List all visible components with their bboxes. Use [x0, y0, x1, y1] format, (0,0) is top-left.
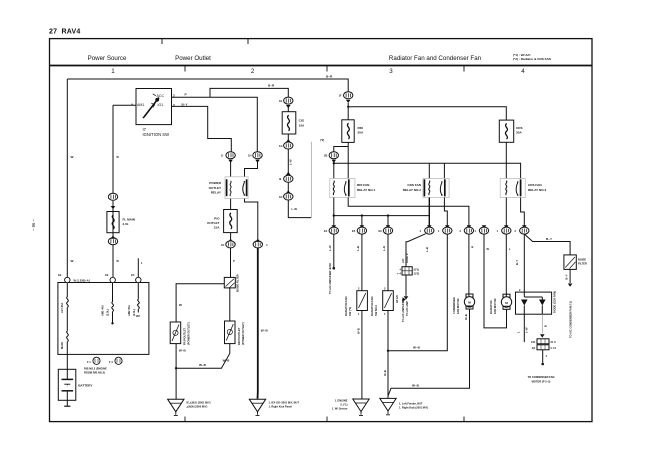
drawing frame [50, 39, 593, 422]
svg-text:C 14: C 14 [551, 346, 557, 350]
svg-text:OUTLET: OUTLET [207, 221, 219, 225]
wire connector to RDI fuse [347, 103, 349, 120]
wire relay2 switch output [444, 198, 447, 227]
svg-text:2(*1): 2(*1) [414, 268, 420, 272]
svg-text:Power Source: Power Source [88, 55, 127, 62]
svg-text:30A: 30A [516, 131, 522, 135]
wire down then right to variant line [288, 200, 311, 218]
svg-text:B–Y: B–Y [546, 237, 553, 241]
svg-text:RELAY NO.1: RELAY NO.1 [357, 188, 376, 192]
wire connector E12 down to diode [523, 234, 525, 292]
wire AM1 chain vertical [112, 105, 114, 277]
relay: power outlet relay [225, 177, 248, 199]
svg-text:W–B: W–B [412, 383, 420, 387]
condenser fan motor [464, 294, 474, 309]
svg-text:W–B: W–B [261, 329, 269, 333]
diode assembly (fan No.2) [516, 288, 552, 314]
svg-text:P: P [233, 259, 235, 263]
svg-text:1(*2): 1(*2) [414, 272, 420, 276]
svg-text:FILTER: FILTER [578, 262, 587, 266]
svg-text:C11: C11 [531, 340, 536, 344]
wire connector E9 to condenser fan motor [468, 234, 470, 296]
svg-text:MAIN: MAIN [60, 342, 64, 349]
svg-text:TO A/C AMPLIFIER: TO A/C AMPLIFIER [401, 299, 405, 322]
wire fan switch to ground [361, 311, 363, 399]
svg-text:2.0L: 2.0L [123, 222, 129, 226]
svg-text:RDI: RDI [358, 126, 363, 130]
bottom border column ticks [185, 417, 464, 422]
svg-text:1B: 1B [58, 273, 61, 277]
svg-text:FAN MOTOR: FAN MOTOR [456, 298, 460, 314]
wire temp switch to ground [387, 311, 389, 399]
connector 1C on AM1 chain [108, 238, 117, 245]
connector 2B [329, 152, 338, 159]
svg-text:TO CONDENSER FAN: TO CONDENSER FAN [528, 375, 555, 379]
wire noise filter to A/C system [569, 269, 571, 283]
svg-text:ACC: ACC [157, 94, 165, 98]
svg-text:R/B NO.2 (ENGINE: R/B NO.2 (ENGINE [84, 367, 107, 371]
svg-text:(POWER OUTLET): (POWER OUTLET) [187, 322, 191, 345]
svg-text:RELAY NO.2: RELAY NO.2 [403, 188, 422, 192]
svg-text:DIODE (CDS FAN): DIODE (CDS FAN) [553, 291, 557, 313]
wire to radiator fan switch [361, 234, 363, 291]
connector E6 [383, 227, 392, 234]
svg-text:SW NO.2: SW NO.2 [374, 304, 378, 316]
svg-text:1. ENGINE: 1. ENGINE [335, 399, 348, 403]
svg-text:2. (*1): 2. (*1) [340, 403, 347, 407]
svg-text:L–R: L–R [382, 246, 386, 251]
wire connector E12 branch to noise filter [524, 234, 570, 255]
svg-text:NOISE: NOISE [578, 258, 586, 262]
column number band ticks [185, 66, 464, 72]
wire junction block to battery [66, 354, 68, 374]
svg-text:(*2): (*2) [320, 138, 324, 142]
connector E8 [443, 227, 452, 234]
junction connector C8 [537, 339, 549, 344]
svg-text:1H: 1H [248, 154, 251, 158]
connector I9 [284, 175, 293, 182]
fuse AM1 inside junction block [112, 283, 114, 323]
svg-text:W (1.25B)–A1: W (1.25B)–A1 [74, 279, 91, 283]
ground EB (fans) [380, 398, 396, 414]
wire connector 1I to relay coil [230, 161, 232, 177]
svg-text:3: 3 [173, 103, 175, 107]
node bus B3 [387, 214, 389, 216]
wire junction to condenser fan motor reference [542, 350, 544, 363]
svg-text:POWER: POWER [209, 181, 221, 185]
wire with rotated color label [287, 149, 289, 174]
node pin 1A [65, 277, 70, 282]
svg-text:2B: 2B [324, 154, 327, 158]
node: ground junction [175, 367, 177, 369]
wire B-R main feed (top, battery hot) [67, 79, 348, 92]
fuse AM2 inside junction block [137, 283, 139, 313]
svg-text:B–Y: B–Y [564, 274, 568, 279]
svg-text:W/ A/C: W/ A/C [395, 295, 399, 303]
fusible link FL MAIN [107, 212, 119, 233]
svg-text:W–B: W–B [223, 359, 231, 363]
svg-text:M: M [505, 301, 508, 305]
fuse RDI FAN 30A [342, 120, 354, 143]
bus droppers to connectors [362, 216, 388, 227]
noise filter (power outlet) [224, 277, 235, 288]
svg-text:1K: 1K [221, 243, 224, 247]
svg-text:TO A/C AMPLIFIER∖ECM: TO A/C AMPLIFIER∖ECM [328, 263, 332, 294]
svg-text:4(1: 4(1 [532, 346, 536, 350]
junction connector C13 [537, 345, 549, 350]
wire left vertical to junction block pin 1A [66, 79, 68, 277]
fuse CIG 15A [282, 112, 296, 134]
wire relay1 switch output (thin run) [348, 198, 469, 227]
water temp switch [383, 287, 394, 317]
svg-text:FL MAIN: FL MAIN [123, 218, 136, 222]
wire connector E11 to radiator fan motor [505, 234, 507, 297]
svg-text:M: M [468, 301, 471, 305]
svg-text:W: W [71, 259, 74, 263]
wire to CIG fuse [287, 108, 289, 112]
svg-text:L–W: L–W [289, 159, 293, 165]
wire RR outlet joins ground run [176, 344, 230, 369]
battery ground bar [64, 405, 70, 407]
svg-text:TO A/C AMP: TO A/C AMP [405, 301, 409, 316]
svg-text:W–B: W–B [357, 328, 361, 334]
connector 1L [253, 241, 262, 248]
svg-text:21 C: 21 C [551, 340, 557, 344]
svg-text:1I: 1I [221, 154, 223, 158]
wire relay2 coil output (heavy) [428, 198, 430, 227]
svg-text:IGNITION SW: IGNITION SW [143, 132, 170, 137]
connector E5 [357, 227, 366, 234]
node bus B2 [361, 214, 363, 216]
svg-text:1. Right Kick Panel: 1. Right Kick Panel [269, 405, 293, 409]
relay CDS FAN RELAY No.2 [423, 179, 449, 198]
variant wire (thin) up [310, 142, 312, 218]
junction block bottom pin F1 [93, 357, 100, 364]
svg-text:OUTLET: OUTLET [209, 186, 221, 190]
power outlet RR [225, 321, 236, 344]
svg-text:2: 2 [173, 94, 175, 98]
noise filter (condenser fan) [564, 255, 576, 270]
svg-text:P/O: P/O [214, 217, 220, 221]
svg-text:B: B [472, 245, 474, 249]
wire relay switch output [245, 199, 258, 241]
svg-text:15A: 15A [299, 124, 305, 128]
svg-text:L–B: L–B [425, 247, 429, 252]
svg-text:4: 4 [521, 68, 525, 75]
svg-text:– 96 –: – 96 – [31, 219, 36, 231]
svg-text:Radiator Fan and Condenser Fan: Radiator Fan and Condenser Fan [389, 55, 482, 62]
relay RDI FAN RELAY No.1 [330, 179, 355, 198]
wire stub with node (to ECM) [333, 234, 335, 268]
svg-text:L–W: L–W [525, 327, 529, 333]
connector 1K [226, 241, 235, 248]
wire pressure switch to A/C amplifier [405, 275, 407, 296]
header titles row separator (thick) [50, 65, 593, 67]
connector E7 [425, 227, 434, 234]
wire diode right output to junction connectors [541, 314, 543, 333]
svg-text:NOISE FILTER: NOISE FILTER [236, 274, 240, 292]
svg-text:1B: 1B [105, 273, 108, 277]
svg-text:CIG: CIG [299, 119, 305, 123]
ground EA (fan switch) [353, 399, 369, 415]
svg-text:ALT 80A: ALT 80A [60, 303, 64, 313]
svg-text:+–4: +–4 [397, 272, 402, 276]
svg-text:△W30 (2000 M/Y): △W30 (2000 M/Y) [186, 405, 208, 409]
svg-text:F 1: F 1 [87, 360, 91, 364]
wire feed to CDS fuse [348, 107, 506, 120]
battery [58, 369, 76, 405]
bus droppers to relays [334, 163, 445, 178]
bus wire (fused B+) [334, 163, 521, 178]
wire FR outlet to ground [175, 344, 177, 399]
svg-text:CONDENSER: CONDENSER [452, 297, 456, 314]
connector E12 [520, 227, 529, 234]
svg-text:RADIATOR FAN: RADIATOR FAN [370, 297, 374, 316]
wire condenser motor ground run [388, 309, 470, 396]
svg-text:27 RAV4: 27 RAV4 [49, 29, 80, 36]
wire noise filter down to RR outlet [229, 288, 231, 321]
svg-text:RR P/OUTLET: RR P/OUTLET [237, 327, 241, 345]
svg-text:E5: E5 [352, 229, 356, 233]
svg-text:B–Y: B–Y [182, 103, 189, 107]
radiator fan switch (temperature) [357, 287, 368, 317]
svg-text:15A: 15A [214, 226, 220, 230]
svg-text:3: 3 [389, 68, 393, 75]
svg-text:1: 1 [111, 68, 115, 75]
fuse P/OUTLET 15A [224, 210, 238, 233]
power outlet FR [170, 322, 181, 344]
connector 1I (relay coil feed) [226, 152, 235, 159]
node ground junction [387, 350, 389, 352]
node bus B [333, 214, 335, 216]
svg-text:AM1 40A: AM1 40A [101, 305, 105, 316]
svg-text:FR P/OUTLET: FR P/OUTLET [183, 328, 187, 345]
wire ACC branch up to CIG fuse [210, 88, 288, 97]
svg-text:AM2 30A: AM2 30A [127, 305, 131, 316]
connector row arrows [332, 225, 337, 228]
wire IG1 run down-right [172, 106, 232, 151]
wire from connector E8 joining ground [388, 234, 447, 351]
svg-text:B–R: B–R [268, 84, 275, 88]
svg-text:IG1: IG1 [158, 103, 164, 107]
svg-text:SW (*1): SW (*1) [348, 307, 352, 316]
wire jog to connector 2B [334, 147, 348, 152]
node pin 1D [136, 277, 141, 282]
svg-text:(POWER OUTLET): (POWER OUTLET) [241, 322, 245, 345]
junction block R/B No.2 [58, 283, 149, 355]
svg-text:W: W [71, 155, 74, 159]
relay CDS FAN RELAY No.3 [500, 179, 525, 198]
svg-text:E4: E4 [324, 229, 328, 233]
svg-text:RELAY NO.3: RELAY NO.3 [528, 188, 547, 192]
svg-text:(*2) : Radiator & CDS FAN: (*2) : Radiator & CDS FAN [513, 57, 552, 61]
svg-text:W–B: W–B [413, 346, 421, 350]
radiator fan motor [501, 294, 511, 309]
svg-text:FAN MOTOR: FAN MOTOR [493, 298, 497, 314]
wire relay3 coil output [505, 198, 507, 227]
svg-text:W–B: W–B [383, 370, 387, 376]
svg-text:IE △W31 (2001 M/Y): IE △W31 (2001 M/Y) [187, 401, 211, 405]
wire noise filter branch left to FR outlet [176, 284, 224, 322]
svg-text:B–R: B–R [326, 75, 333, 79]
svg-text:(2.0L): (2.0L) [106, 309, 110, 316]
svg-text:1. Right Kick (2001 M/Y): 1. Right Kick (2001 M/Y) [399, 406, 428, 410]
svg-text:1. W/ Sensor: 1. W/ Sensor [332, 407, 348, 411]
connector 1H (ACC feed) [253, 152, 262, 159]
svg-text:B: B [544, 325, 548, 327]
A/C dual pressure switch [402, 267, 412, 275]
svg-text:W: W [179, 303, 182, 307]
fuse ALT inside junction block [67, 297, 69, 308]
wire relay3 switch output [521, 198, 525, 227]
svg-text:CDS FAN: CDS FAN [528, 183, 542, 187]
wire diode left output stub [523, 314, 525, 342]
svg-text:RDI FAN: RDI FAN [357, 183, 370, 187]
svg-text:4: 4 [131, 103, 133, 107]
fuse CDS FAN 30A [499, 120, 513, 142]
wire relay coil to fuse [230, 199, 232, 210]
svg-text:1. Left Fender, BUT: 1. Left Fender, BUT [399, 402, 423, 406]
svg-text:RELAY: RELAY [211, 190, 222, 194]
svg-text:E6: E6 [379, 229, 383, 233]
svg-text:1. IE4 GD–2001 M/Y, BUT: 1. IE4 GD–2001 M/Y, BUT [269, 401, 300, 405]
wire connector 1H to relay switch [245, 161, 258, 177]
svg-text:1G: 1G [279, 144, 282, 148]
wire relay1 coil to connector row [333, 198, 335, 227]
wire fuse to connector [230, 233, 232, 241]
connector 1E on AM1 chain [108, 193, 117, 200]
stub wire above pin 1D [137, 258, 139, 277]
wire motor return to connector E10 [484, 234, 507, 328]
wire fuse output to relay switch [347, 142, 349, 178]
node: junction at RDI fuse top [347, 106, 349, 108]
svg-text:F 4: F 4 [109, 360, 113, 364]
connector 1E (top of CIG chain) [284, 97, 293, 104]
node bus A [333, 162, 335, 164]
svg-text:P: P [185, 93, 187, 97]
bus wire lower (relay outputs) [334, 215, 430, 217]
junction block bottom pin F4 [115, 357, 122, 364]
svg-text:2: 2 [251, 68, 255, 75]
connector 1F (top of RDI fuse) [344, 92, 353, 99]
fuse MAIN inside junction block (second) [67, 331, 69, 342]
pressure switch feed diagonal [406, 234, 426, 267]
svg-text:2M: 2M [136, 314, 140, 318]
svg-text:MOTOR (P 2–2): MOTOR (P 2–2) [532, 380, 551, 384]
svg-text:ROOM R/B NO.2): ROOM R/B NO.2) [84, 371, 105, 375]
wire ACC run to col2 [172, 97, 258, 151]
svg-text:RADIATOR FAN: RADIATOR FAN [344, 297, 348, 316]
svg-text:DUAL P: DUAL P [405, 253, 409, 263]
svg-text:W–B: W–B [464, 314, 468, 320]
header section divider ticks (top line) [162, 39, 248, 44]
wire AM1 bend to ignition switch [113, 104, 136, 106]
svg-text:L–W: L–W [292, 207, 298, 211]
connector E4 [329, 227, 338, 234]
svg-text:1D: 1D [279, 195, 282, 199]
connector E11 [502, 227, 511, 234]
ground IE (front outlet) [168, 399, 184, 415]
svg-text:BATTERY: BATTERY [78, 384, 93, 388]
connector E9 [464, 227, 473, 234]
wire to water temp switch [387, 234, 389, 291]
svg-text:W–B: W–B [179, 349, 187, 353]
ignition switch I7 [131, 89, 188, 125]
heavy ground wire from relay switch [257, 248, 259, 399]
connector E10 [479, 227, 488, 234]
wire connector to noise filter [230, 248, 232, 278]
svg-text:L–B: L–B [356, 246, 360, 251]
svg-text:RADIATOR: RADIATOR [489, 300, 493, 314]
wire CDS fuse to relay3 coil [505, 142, 507, 178]
svg-text:CDS FAN: CDS FAN [407, 183, 421, 187]
svg-text:1E: 1E [279, 99, 282, 103]
svg-text:1D: 1D [131, 273, 134, 277]
svg-text:L–W: L–W [328, 245, 332, 251]
svg-text:TO A/C CONDENSER FAN (*1): TO A/C CONDENSER FAN (*1) [569, 301, 573, 338]
node pin 1B [110, 277, 115, 282]
connector 1G [284, 142, 293, 149]
svg-text:W–B: W–B [199, 363, 207, 367]
ground IG (rear outlet) [249, 399, 265, 415]
svg-text:1F: 1F [339, 94, 342, 98]
wire to bus node [333, 161, 335, 163]
connector arrows [482, 225, 487, 228]
connector ID1 [284, 193, 293, 200]
wire fuse to connector [287, 134, 289, 141]
svg-text:30A: 30A [358, 131, 364, 135]
svg-text:Power Outlet: Power Outlet [175, 55, 211, 62]
svg-text:CDS: CDS [516, 126, 523, 130]
svg-text:AM1: AM1 [137, 103, 144, 107]
wire to next connector [287, 182, 289, 192]
svg-text:A/C: A/C [401, 258, 405, 263]
svg-text:B–Y: B–Y [515, 260, 519, 265]
